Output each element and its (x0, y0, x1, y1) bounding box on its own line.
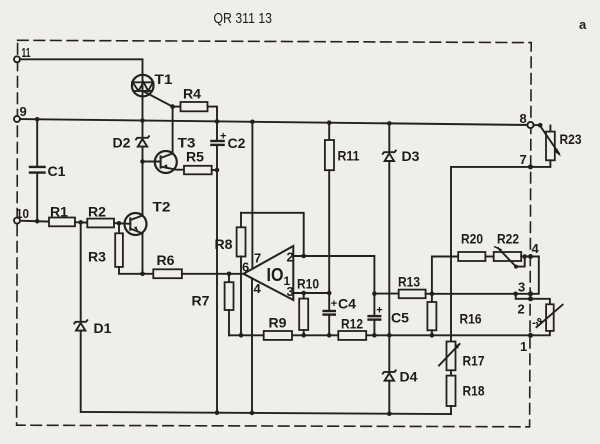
node R5 on C2 line (215, 168, 220, 173)
terminal 10 (14, 218, 20, 224)
node D4 bottom on bottom rail (387, 411, 392, 416)
terminal 3 (528, 291, 533, 296)
wire terminal 8 to R23 wiper (534, 124, 541, 126)
svg-text:R5: R5 (186, 149, 204, 165)
svg-text:4: 4 (532, 241, 540, 256)
node pin7 supply line on rail 9 (250, 120, 255, 125)
wire R13 to terminal 3 (426, 293, 531, 295)
node R2/R3/T2 (117, 221, 122, 226)
wire rail 9 (supply rail to terminal 8) (20, 119, 531, 125)
svg-text:QR 311 13: QR 311 13 (214, 10, 273, 27)
svg-text:11: 11 (22, 45, 31, 60)
svg-text:R3: R3 (88, 249, 106, 265)
svg-text:D4: D4 (400, 369, 418, 385)
resistor R12 (338, 331, 366, 340)
node C1 top on rail 9 (35, 117, 40, 122)
svg-text:R9: R9 (269, 315, 287, 331)
svg-text:IO: IO (267, 265, 284, 285)
terminal 2 (528, 296, 533, 301)
svg-text:R10: R10 (297, 276, 319, 292)
node R1/R2/D1 (78, 220, 83, 225)
resistor R6 (153, 269, 182, 278)
svg-text:2: 2 (287, 250, 294, 265)
svg-text:2: 2 (518, 302, 525, 317)
resistor R10 (303, 293, 305, 299)
node T1 emitter / R4 / T3 collector (170, 104, 175, 109)
node R10 bottom on row (301, 333, 306, 338)
svg-text:R18: R18 (463, 383, 485, 399)
svg-text:+: + (331, 298, 337, 310)
R22 wiper strap to terminal 4 wire (516, 257, 525, 267)
wire R13 from C5 node (374, 293, 398, 295)
node C2 line on bottom rail (215, 410, 220, 415)
svg-text:9: 9 (20, 104, 27, 119)
capacitor C5 (369, 294, 381, 336)
svg-text:8: 8 (520, 111, 527, 126)
svg-text:3: 3 (518, 280, 525, 295)
node C4 bottom on row (327, 333, 332, 338)
svg-text:D3: D3 (402, 148, 420, 164)
resistor R18 (447, 376, 456, 406)
wire R10 bottom (303, 330, 305, 335)
svg-text:10: 10 (16, 206, 29, 221)
svg-text:+: + (220, 131, 226, 143)
node R10 top (301, 291, 306, 296)
wire R16 bottom (431, 330, 433, 335)
wire R8 bottom down to R9 wire (240, 257, 242, 336)
wire R18 bottom corner (450, 406, 452, 414)
resistor R9 (264, 331, 292, 340)
svg-text:R17: R17 (463, 353, 485, 369)
wire node to R4 (173, 106, 181, 108)
wire R17 to R18 (450, 370, 452, 375)
svg-text:R23: R23 (560, 131, 582, 147)
diode D2 (136, 121, 149, 162)
wire C2 line down to bottom rail (216, 170, 218, 413)
svg-text:R11: R11 (338, 148, 360, 164)
adjustable resistor R17 (447, 342, 456, 371)
svg-text:6: 6 (242, 260, 249, 275)
resistor R13 (399, 290, 426, 299)
wire R2 to T2 base (114, 222, 130, 225)
node T1 line on rail 9 (140, 118, 145, 123)
potentiometer R23 (549, 126, 551, 132)
jumper terminal 3 wire to terminal 2 (516, 294, 531, 299)
wire pin 7 to rail 9 (251, 122, 253, 269)
terminal 11 (14, 56, 20, 62)
node jumper to terminal 2 (513, 292, 518, 297)
resistor R3 (118, 223, 120, 233)
svg-text:7: 7 (520, 152, 527, 167)
node D3 top on rail 9 (387, 121, 392, 126)
svg-text:D2: D2 (113, 135, 131, 151)
svg-text:C5: C5 (391, 310, 409, 326)
node C2 line on rail 9 (215, 119, 220, 124)
resistor R4 (181, 102, 208, 111)
wire R6 to op-amp pin 6 (182, 273, 244, 275)
transistor T2 (125, 213, 147, 235)
capacitor C2 (211, 141, 223, 170)
svg-text:C4: C4 (338, 296, 356, 312)
svg-text:R1: R1 (50, 204, 68, 220)
resistor R20 (458, 252, 485, 261)
diode D4 (383, 335, 396, 413)
wire pin 4 to bottom rail (251, 278, 253, 413)
wire T2 collector riser (142, 162, 144, 216)
diode D3 (383, 123, 396, 335)
node D2 / T3 base / T2 collector (140, 159, 145, 164)
thermistor sensor (-t) (531, 299, 550, 305)
svg-text:R16: R16 (460, 311, 482, 327)
svg-text:+: + (376, 305, 382, 317)
resistor R1 (49, 218, 75, 227)
wire R22 to terminal 4 (521, 256, 539, 258)
node R13/R16/R20 riser (430, 292, 435, 297)
wire terminal 11 to T1 collector (20, 59, 143, 75)
wire R3 bottom to R6 (119, 267, 153, 274)
svg-text:C2: C2 (228, 135, 246, 151)
op-amp IO1 (244, 246, 294, 300)
node output / feedback (301, 254, 306, 259)
wire T2 emitter down (142, 233, 144, 273)
svg-text:-ϑ: -ϑ (532, 317, 543, 329)
svg-text:R7: R7 (192, 293, 210, 309)
wire R4 to C2 line (208, 107, 218, 141)
node C1 bottom on row 10 (35, 219, 40, 224)
svg-text:R12: R12 (341, 316, 363, 332)
wire R20 riser and row (432, 257, 458, 294)
svg-text:R8: R8 (215, 236, 233, 252)
terminal 9 (14, 116, 20, 122)
wire thermistor bottom to terminal 1 (531, 331, 550, 335)
svg-text:R13: R13 (398, 274, 420, 290)
bottom rail (81, 412, 451, 414)
wire T3 collector riser (172, 107, 174, 154)
wire R1 to R2 (75, 221, 87, 223)
svg-text:R22: R22 (497, 231, 519, 247)
terminal 4 (528, 254, 533, 259)
wire R23 bottom to terminal 7 (531, 160, 551, 167)
output line terminal 7 riser (451, 167, 531, 342)
resistor R5 (184, 166, 212, 175)
terminal 7 (528, 164, 533, 169)
svg-text:R6: R6 (157, 252, 175, 268)
svg-text:3: 3 (287, 284, 294, 299)
resistor R16 (431, 294, 433, 302)
svg-text:a: a (579, 17, 587, 32)
wire R11 bottom to pin3 wire (328, 170, 330, 293)
capacitor C1 (30, 119, 45, 221)
potentiometer R22 (494, 252, 522, 261)
wire pin 3 (293, 292, 329, 294)
resistor R11 (328, 123, 330, 140)
wire R20 to R22 (485, 256, 493, 258)
wire op-amp output pin 2 (293, 256, 374, 294)
svg-text:7: 7 (254, 251, 261, 266)
node T2 emitter on R6 wire (140, 272, 145, 277)
terminal 1 (528, 333, 533, 338)
wire R7 bottom to R9 wire (228, 310, 230, 335)
svg-text:T2: T2 (153, 199, 171, 215)
wire R8 feedback to output (241, 213, 304, 256)
resistor R2 (87, 219, 114, 228)
svg-text:R2: R2 (88, 204, 106, 220)
resistor R8 (240, 213, 242, 228)
diode D1 (74, 222, 87, 412)
external strap terminal 4 to terminal 3 (531, 257, 539, 294)
transistor T1 (132, 75, 173, 121)
node C5 bottom on row (372, 333, 377, 338)
node D3/D4 on row (387, 333, 392, 338)
node R8 bottom (239, 333, 244, 338)
wire R5 to C2 line (212, 169, 217, 171)
svg-text:R4: R4 (183, 86, 201, 102)
node R7 top on pin6 wire (227, 272, 232, 277)
svg-text:T1: T1 (155, 71, 173, 87)
terminal 8 (527, 122, 533, 128)
capacitor C4 (324, 293, 335, 335)
wire row 10 (20, 220, 49, 223)
main wire R9/R12/terminal 1 row (229, 334, 531, 336)
svg-text:4: 4 (254, 281, 262, 296)
dashed enclosure border (17, 40, 532, 427)
R22 wiper arrow (498, 248, 516, 267)
node pin4 line on bottom rail (250, 411, 255, 416)
svg-text:1: 1 (520, 339, 527, 354)
svg-text:D1: D1 (94, 320, 112, 336)
node pin2 wire / C5 / R13 (372, 291, 377, 296)
svg-text:R20: R20 (461, 231, 483, 247)
node R11 top on rail 9 (327, 120, 332, 125)
node R16 bottom on row (430, 333, 435, 338)
resistor R7 (228, 274, 230, 282)
transistor T3 (143, 151, 185, 173)
svg-text:C1: C1 (48, 163, 66, 179)
node R11 bottom on pin3 wire (327, 291, 332, 296)
